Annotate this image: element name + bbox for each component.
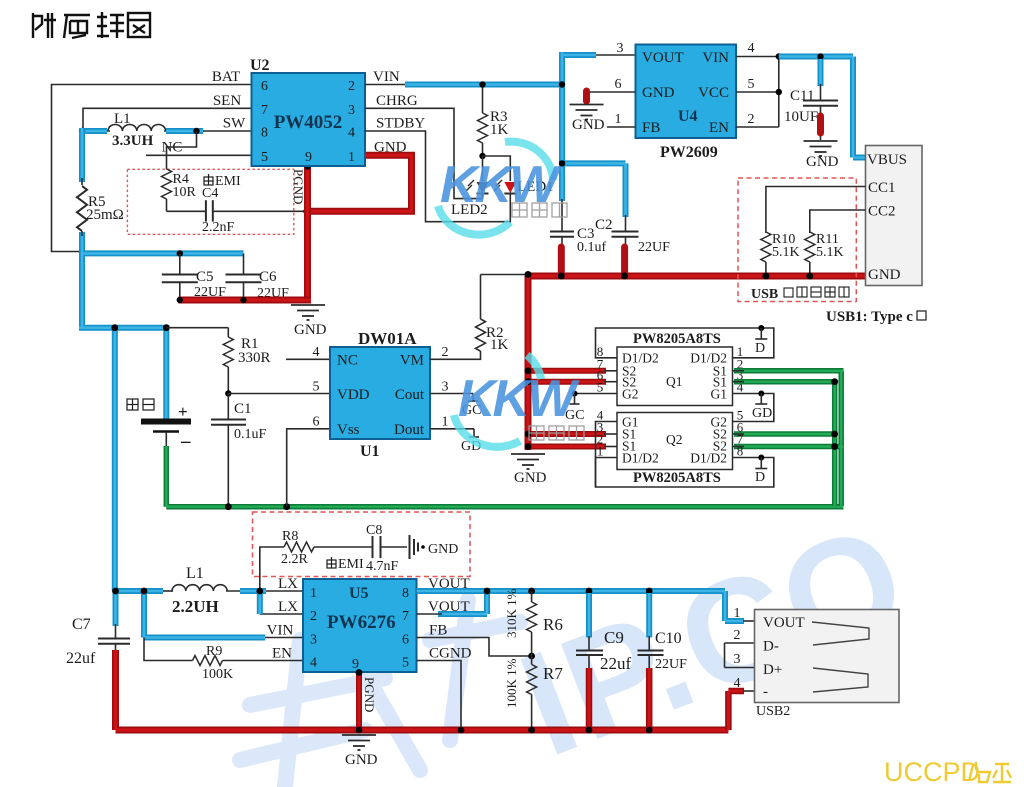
- red stub C3: [558, 247, 565, 274]
- svg-text:PW4052: PW4052: [274, 112, 343, 133]
- big pale diagonal watermark: [240, 493, 927, 787]
- svg-text:-: -: [763, 684, 768, 700]
- wire Q1 G1 to Q2 G2: [733, 394, 774, 422]
- svg-text:CGND: CGND: [429, 646, 472, 662]
- svg-text:4: 4: [348, 126, 355, 141]
- svg-text:8: 8: [402, 586, 409, 601]
- pin labels U5 right: [428, 576, 472, 662]
- capacitor C1: [227, 394, 229, 420]
- svg-text:Dout: Dout: [394, 422, 425, 438]
- capacitor C10: [646, 593, 652, 638]
- svg-text:LX: LX: [278, 576, 298, 592]
- svg-text:GND: GND: [572, 117, 605, 133]
- svg-text:GND: GND: [294, 322, 327, 338]
- svg-text:VBUS: VBUS: [867, 152, 907, 168]
- svg-text:SW: SW: [223, 116, 246, 132]
- svg-text:EMI: EMI: [215, 174, 241, 189]
- svg-text:6: 6: [313, 415, 320, 430]
- wire Q1 G2 with GC flag: [573, 393, 618, 395]
- green wires S links: [734, 371, 844, 506]
- svg-text:GND: GND: [806, 154, 839, 170]
- svg-text:1: 1: [597, 444, 604, 459]
- svg-text:GND: GND: [428, 542, 458, 557]
- svg-text:USB1: Type c: USB1: Type c: [826, 309, 913, 325]
- svg-text:EN: EN: [709, 120, 729, 136]
- dashed box USB resistors: [738, 178, 856, 302]
- svg-text:GND: GND: [868, 267, 901, 283]
- svg-text:6: 6: [615, 77, 622, 92]
- red wire GND bus vertical: [525, 276, 532, 450]
- wire VIN stub: [262, 637, 303, 639]
- svg-text:4: 4: [313, 345, 320, 360]
- svg-text:C6: C6: [259, 269, 277, 285]
- resistor R5: [81, 178, 83, 185]
- svg-text:U5: U5: [349, 585, 369, 602]
- ground flag sideways C8: [410, 535, 419, 559]
- pin labels U2 right: [373, 69, 425, 156]
- svg-text:PGND: PGND: [291, 169, 306, 204]
- svg-text:R9: R9: [206, 644, 222, 659]
- wire Q1 pin stubs left: [604, 371, 617, 447]
- wire FB: [417, 638, 532, 657]
- svg-text:22uf: 22uf: [600, 654, 632, 673]
- svg-text:G1: G1: [711, 387, 728, 402]
- wire BAT from U2 pin6: [52, 85, 252, 252]
- wire STDBY to LED1: [365, 131, 510, 222]
- svg-text:R6: R6: [543, 615, 563, 634]
- svg-text:FB: FB: [642, 120, 660, 136]
- svg-text:PW2609: PW2609: [660, 144, 718, 161]
- capacitor C5: [162, 275, 198, 283]
- resistor R4: [162, 169, 172, 199]
- svg-text:6: 6: [402, 633, 409, 648]
- svg-text:C10: C10: [655, 630, 682, 647]
- svg-text:L1: L1: [114, 111, 131, 127]
- svg-text:0.1uF: 0.1uF: [234, 427, 267, 442]
- blue wire VBUS: [779, 57, 866, 158]
- svg-text:C1: C1: [234, 401, 252, 417]
- svg-text:NC: NC: [337, 353, 358, 369]
- svg-text:330R: 330R: [238, 350, 271, 366]
- svg-text:5.1K: 5.1K: [816, 245, 844, 260]
- capacitor C8: [373, 536, 381, 558]
- svg-text:2: 2: [310, 609, 317, 624]
- wire CHRG to LED2: [365, 108, 483, 198]
- resistor R2: [476, 319, 486, 351]
- svg-text:0.1uf: 0.1uf: [577, 240, 607, 255]
- svg-text:GND: GND: [642, 85, 675, 101]
- resistor R11: [805, 232, 815, 262]
- resistor R7: [527, 665, 537, 695]
- wire NC stub U1: [286, 358, 330, 360]
- D flag bottom: [760, 458, 762, 469]
- svg-text:STDBY: STDBY: [376, 116, 425, 132]
- chip U5 PW6276: [303, 579, 417, 672]
- svg-text:1: 1: [348, 150, 355, 165]
- resistor R10: [761, 232, 771, 262]
- wire Q1 right pin stubs: [733, 371, 745, 447]
- node pin9: [304, 163, 310, 169]
- transistor block Q1: [617, 347, 733, 406]
- USB2 contact shapes: [812, 622, 869, 692]
- svg-text:C5: C5: [196, 269, 214, 285]
- svg-text:7: 7: [402, 609, 409, 624]
- node R3 LED: [479, 153, 485, 159]
- pin numbers U1: [313, 345, 449, 430]
- red stub U4 gnd: [583, 91, 590, 101]
- svg-text:2.2R: 2.2R: [281, 552, 309, 567]
- svg-text:3: 3: [310, 633, 317, 648]
- LED1: [494, 180, 516, 199]
- title pseudo hanzi: [33, 12, 150, 38]
- wire Q2 left G1 stub: [596, 422, 618, 488]
- svg-text:KKW: KKW: [440, 156, 562, 214]
- svg-text:3: 3: [348, 103, 355, 118]
- svg-text:8: 8: [737, 444, 744, 459]
- capacitor C7: [115, 624, 117, 639]
- svg-text:C11: C11: [790, 88, 814, 104]
- ground symbol GND bus: [511, 454, 545, 469]
- LED2: [466, 180, 489, 199]
- svg-text:10UF: 10UF: [784, 109, 818, 125]
- chip U1 DW01A: [330, 347, 430, 439]
- red wire mid GND rail to USB1: [528, 273, 866, 280]
- red stub C2: [621, 247, 628, 274]
- svg-text:–: –: [180, 431, 191, 452]
- svg-text:1: 1: [442, 415, 449, 430]
- svg-text:CC2: CC2: [868, 204, 896, 220]
- svg-text:CHRG: CHRG: [376, 93, 418, 109]
- svg-text:1K: 1K: [490, 122, 509, 138]
- blue wire SW node: [82, 128, 203, 134]
- wire LX2 stub: [260, 613, 303, 615]
- pin numbers USB2: [734, 606, 741, 691]
- svg-text:Q1: Q1: [666, 374, 683, 389]
- svg-text:USB: USB: [751, 287, 778, 302]
- wire CGND: [417, 661, 462, 731]
- svg-text:U2: U2: [250, 57, 270, 74]
- svg-text:4.7nF: 4.7nF: [366, 559, 399, 574]
- svg-text:5.1K: 5.1K: [772, 245, 800, 260]
- svg-text:C9: C9: [604, 628, 624, 647]
- svg-text:GND: GND: [345, 752, 378, 768]
- svg-text:2: 2: [748, 112, 755, 127]
- svg-text:R7: R7: [543, 664, 563, 683]
- svg-text:5: 5: [313, 380, 320, 395]
- KKW watermark mid: [454, 355, 584, 447]
- svg-text:PW8205A8TS: PW8205A8TS: [633, 331, 721, 347]
- svg-text:4: 4: [310, 656, 317, 671]
- svg-text:VIN: VIN: [373, 69, 400, 85]
- wire LX1 stub: [262, 590, 303, 592]
- wire U4 right pins tie: [736, 57, 779, 128]
- resistor R8: [284, 542, 314, 552]
- svg-text:USB2: USB2: [756, 704, 790, 719]
- svg-text:VOUT: VOUT: [642, 50, 684, 66]
- wire R8 left drop: [260, 547, 284, 591]
- red wire USB2 pin4: [728, 691, 744, 730]
- pin numbers Q1: [597, 344, 744, 395]
- svg-text:Q2: Q2: [666, 432, 683, 447]
- svg-text:1: 1: [734, 606, 741, 621]
- EMI label 2: [327, 557, 336, 568]
- svg-text:CC1: CC1: [868, 180, 896, 196]
- ground symbol U4: [570, 105, 604, 120]
- pin numbers U4: [615, 41, 755, 127]
- svg-text:4: 4: [748, 41, 755, 56]
- svg-text:6: 6: [261, 79, 268, 94]
- ground symbol U5: [342, 735, 376, 750]
- wire U4 pin3 stub: [596, 54, 636, 56]
- red wires Q1 S2 branches: [528, 371, 606, 447]
- svg-text:G2: G2: [622, 387, 639, 402]
- GD flag mid: [760, 394, 762, 405]
- wire LED1 top link: [483, 156, 511, 181]
- wire SW from U2 pin8: [203, 130, 252, 132]
- svg-text:Cout: Cout: [395, 387, 425, 403]
- wire VM to R2: [430, 351, 481, 359]
- capacitor C2: [625, 215, 627, 232]
- wire R2 top link: [481, 274, 529, 276]
- wire Cout GC flag: [430, 393, 473, 395]
- svg-text:C8: C8: [366, 523, 382, 538]
- EMI label: [204, 174, 213, 185]
- svg-text:10R: 10R: [173, 185, 197, 200]
- svg-text:DW01A: DW01A: [358, 329, 417, 348]
- svg-text:EMI: EMI: [338, 557, 364, 572]
- svg-text:D1/D2: D1/D2: [622, 451, 659, 466]
- svg-text:5: 5: [597, 380, 604, 395]
- svg-text:3.3UH: 3.3UH: [112, 133, 154, 149]
- svg-text:U4: U4: [678, 108, 698, 125]
- red wire PGND U5: [356, 672, 362, 730]
- svg-text:VIN: VIN: [702, 50, 729, 66]
- wire C5 stub: [179, 253, 181, 274]
- svg-text:D1/D2: D1/D2: [690, 451, 727, 466]
- red wire C5 C6 ground rail: [178, 297, 311, 304]
- svg-text:1: 1: [615, 112, 622, 127]
- red wire C7 to bottom rail: [116, 650, 729, 730]
- svg-text:+: +: [178, 402, 188, 421]
- svg-text:C2: C2: [595, 217, 613, 233]
- svg-text:UCCPD: UCCPD: [884, 757, 980, 787]
- svg-text:D+: D+: [763, 662, 782, 678]
- svg-text:D-: D-: [763, 639, 779, 655]
- wire VDD: [228, 393, 330, 395]
- svg-text:LX: LX: [278, 599, 298, 615]
- blue wire VIN rail to C3 C2 U4: [405, 52, 626, 217]
- svg-text:EN: EN: [272, 646, 292, 662]
- svg-text:4: 4: [734, 676, 741, 691]
- wire battery row to R1: [166, 327, 228, 329]
- wire U4 FB stub: [607, 126, 636, 128]
- svg-text:R8: R8: [282, 529, 298, 544]
- wire Q2 D1/D2 bottom loop: [596, 458, 774, 488]
- svg-text:PGND: PGND: [362, 677, 377, 712]
- wire L1 row: [82, 130, 110, 132]
- svg-text:2: 2: [348, 79, 355, 94]
- capacitor C4: [167, 210, 206, 212]
- blue wire VOUT rail: [417, 591, 745, 621]
- dashed EMI box R8 C8: [253, 512, 471, 577]
- svg-text:5: 5: [402, 656, 409, 671]
- svg-text:7: 7: [261, 103, 268, 118]
- svg-text:L1: L1: [186, 565, 204, 582]
- svg-text:5: 5: [748, 77, 755, 92]
- wire CC2: [810, 210, 866, 233]
- svg-text:310K 1%: 310K 1%: [504, 588, 519, 638]
- svg-text:U1: U1: [360, 443, 380, 460]
- svg-text:GND: GND: [374, 140, 407, 156]
- svg-text:GD: GD: [752, 406, 772, 421]
- svg-text:2.2nF: 2.2nF: [202, 220, 235, 235]
- transistor block Q2: [617, 413, 733, 470]
- svg-text:PW8205A8TS: PW8205A8TS: [633, 470, 721, 486]
- wire CC1: [766, 187, 866, 234]
- svg-text:VM: VM: [400, 353, 424, 369]
- svg-text:BAT: BAT: [212, 69, 240, 85]
- pin labels U2 left: [162, 69, 247, 156]
- capacitor C3: [561, 199, 563, 232]
- wire SEN from U2 pin7: [83, 108, 252, 130]
- capacitor C9: [586, 593, 592, 638]
- svg-text:C4: C4: [202, 186, 218, 201]
- dashed EMI box R4 C4: [127, 169, 293, 234]
- svg-text:3: 3: [617, 41, 624, 56]
- blue wires LX VIN rows: [115, 589, 266, 638]
- svg-text:100K 1%: 100K 1%: [504, 658, 519, 708]
- connector USB1: [866, 146, 923, 286]
- node C4/PGND: [303, 208, 309, 214]
- wire LED2 top link: [482, 156, 484, 181]
- connector USB2: [755, 610, 900, 703]
- svg-text:KKW: KKW: [458, 370, 580, 428]
- svg-text:VCC: VCC: [698, 85, 729, 101]
- svg-text:PW6276: PW6276: [327, 612, 396, 633]
- svg-text:100K: 100K: [202, 667, 233, 682]
- svg-text:VIN: VIN: [267, 623, 294, 639]
- wire R4 tap from SW: [167, 131, 197, 169]
- svg-text:D: D: [755, 341, 765, 356]
- blue wire left battery rail: [79, 128, 244, 591]
- wire Dout GD flag: [430, 428, 474, 430]
- wire R9 EN: [144, 638, 193, 661]
- capacitor C6: [226, 275, 262, 283]
- wire C6 stub: [243, 253, 245, 274]
- svg-text:2: 2: [734, 628, 741, 643]
- svg-text:VOUT: VOUT: [763, 615, 805, 631]
- svg-text:GND: GND: [514, 470, 547, 486]
- svg-text:3: 3: [734, 652, 741, 667]
- red wire U2 GND pin1 to PGND: [309, 155, 412, 211]
- svg-text:SEN: SEN: [213, 93, 242, 109]
- wire NC stub U2 pin5: [146, 154, 252, 156]
- wire U4 GND pin6: [587, 91, 636, 93]
- svg-text:NC: NC: [162, 140, 183, 156]
- label battery: [127, 399, 154, 410]
- KKW watermark top: [438, 142, 567, 235]
- green wire battery minus to rail: [166, 446, 843, 507]
- chip U4 PW2609: [636, 45, 737, 139]
- pin labels U5 left: [267, 576, 298, 662]
- ground symbol below C5 C6 rail: [291, 305, 325, 320]
- svg-text:9: 9: [305, 150, 312, 165]
- wire VIN thin: [365, 84, 410, 86]
- svg-text:5: 5: [261, 150, 268, 165]
- resistor R6: [531, 591, 533, 602]
- wire Vss: [287, 429, 330, 507]
- pin numbers Q2: [597, 408, 744, 459]
- svg-text:2.2UH: 2.2UH: [172, 597, 219, 616]
- svg-text:FB: FB: [429, 623, 447, 639]
- inductor L1 bottom: [172, 585, 227, 591]
- resistor R1: [227, 328, 229, 337]
- resistor R3: [482, 85, 484, 114]
- chip U2 PW4052: [252, 73, 366, 166]
- capacitor C11: [818, 59, 824, 86]
- svg-text:VDD: VDD: [337, 387, 370, 403]
- svg-text:Vss: Vss: [337, 422, 360, 438]
- svg-text:25mΩ: 25mΩ: [86, 207, 124, 223]
- svg-text:22uf: 22uf: [66, 650, 96, 667]
- red wire PGND vertical U2 pin9: [304, 166, 311, 300]
- inductor L1: [108, 125, 166, 132]
- D flag top: [760, 328, 762, 339]
- ground symbol C11: [804, 141, 838, 156]
- svg-text:22UF: 22UF: [655, 657, 687, 672]
- battery: [141, 402, 191, 452]
- svg-text:8: 8: [261, 126, 268, 141]
- wire USB2 pins 2 3: [725, 643, 755, 668]
- svg-text:2: 2: [442, 345, 449, 360]
- svg-text:C7: C7: [72, 616, 91, 633]
- svg-text:1K: 1K: [490, 337, 509, 353]
- svg-text:D: D: [755, 470, 765, 485]
- svg-text:1: 1: [310, 586, 317, 601]
- wire Q1 D1/D2 top loop: [596, 328, 774, 358]
- svg-text:3: 3: [442, 380, 449, 395]
- svg-text:22UF: 22UF: [638, 240, 670, 255]
